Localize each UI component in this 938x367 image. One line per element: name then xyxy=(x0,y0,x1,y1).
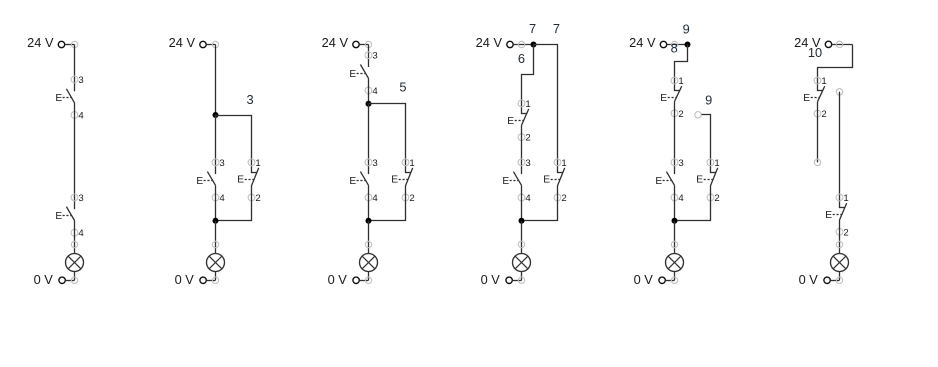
svg-text:E: E xyxy=(349,176,356,187)
0 V lead wire (circuit 1) xyxy=(65,280,74,282)
0 V terminal (circuit 4) xyxy=(506,277,512,283)
net 24 V label (circuit 1) xyxy=(27,35,54,50)
24 V lead wire (circuit 1) xyxy=(65,44,75,46)
net 0 V label (circuit 6) xyxy=(799,272,819,287)
right branch wire top (circuit 3) xyxy=(369,104,406,173)
pushbutton NO contact S1 3-4 (circuit 1) xyxy=(55,89,74,104)
pin 2 of right contact S13 (circuit 5) xyxy=(707,193,720,204)
net label 9 right branch (circuit 5) xyxy=(705,92,712,107)
lamp top node (circuit 3) xyxy=(365,241,371,247)
lamp P2 (circuit 2) xyxy=(207,254,225,272)
pin 3 of contact S5 (circuit 3) xyxy=(365,51,378,62)
pin 3 of contact S12 (circuit 5) xyxy=(671,158,684,169)
svg-text:E: E xyxy=(349,69,356,80)
net label 9 top (circuit 5) xyxy=(683,21,690,36)
wire S9 to bottom junction (circuit 4) xyxy=(521,185,523,221)
pin 3 of contact S9 (circuit 4) xyxy=(518,158,531,169)
wire to lamp (circuit 2) xyxy=(215,221,217,254)
wire junction to left contact (circuit 2) xyxy=(215,115,217,174)
24 V lead wire (circuit 2) xyxy=(206,44,215,46)
net 0 V label (circuit 3) xyxy=(328,272,348,287)
net 0 V label (circuit 4) xyxy=(481,272,501,287)
24 V lead wire (circuit 5) xyxy=(667,44,688,46)
svg-text:2: 2 xyxy=(678,109,683,120)
lamp bottom stub (circuit 5) xyxy=(674,271,676,280)
svg-text:E: E xyxy=(237,175,244,186)
svg-text:5: 5 xyxy=(399,79,406,94)
lamp P6 (circuit 6) xyxy=(831,254,849,272)
supply node (circuit 4) xyxy=(518,41,524,47)
pin 4 of contact S2 (circuit 1) xyxy=(71,228,84,239)
24 V terminal (circuit 6) xyxy=(825,41,831,47)
svg-text:1: 1 xyxy=(525,99,530,110)
pin 1 of right contact S10 (circuit 4) xyxy=(554,158,567,169)
svg-text:4: 4 xyxy=(78,228,84,239)
pushbutton NC contact S8 1-2 (circuit 4) xyxy=(507,109,528,127)
pin 3 of left contact S3 (circuit 2) xyxy=(212,158,225,169)
supply node (circuit 6) xyxy=(836,41,842,47)
pin 2 of contact S14 (circuit 6) xyxy=(814,109,827,120)
svg-text:1: 1 xyxy=(843,193,848,204)
svg-text:24 V: 24 V xyxy=(476,35,503,50)
lamp bottom stub (circuit 1) xyxy=(74,271,76,280)
wire S5 to branch junction (circuit 3) xyxy=(368,78,370,103)
svg-text:24 V: 24 V xyxy=(27,35,54,50)
svg-text:2: 2 xyxy=(409,193,414,204)
pin 4 of contact S5 (circuit 3) xyxy=(365,86,378,97)
pushbutton NO contact S9 3-4 (circuit 4) xyxy=(502,172,521,187)
lamp bottom node (circuit 6) xyxy=(836,277,842,283)
svg-text:E: E xyxy=(543,175,550,186)
pin 2 of right contact S4 (circuit 2) xyxy=(248,193,261,204)
24 V terminal (circuit 4) xyxy=(507,41,513,47)
svg-text:3: 3 xyxy=(372,51,377,62)
svg-text:2: 2 xyxy=(714,193,719,204)
svg-text:E: E xyxy=(196,176,203,187)
lamp bottom stub (circuit 4) xyxy=(521,271,523,280)
wire to lamp (circuit 1) xyxy=(74,221,76,254)
24 V terminal (circuit 2) xyxy=(200,41,206,47)
right branch wire top (circuit 2) xyxy=(216,116,252,173)
svg-text:0 V: 0 V xyxy=(799,272,819,287)
wire left contact to bottom junction (circuit 2) xyxy=(215,185,217,221)
svg-text:0 V: 0 V xyxy=(634,272,654,287)
wire S12 to bottom junction (circuit 5) xyxy=(674,185,676,221)
pin 1 of right contact S7 (circuit 3) xyxy=(402,158,415,169)
wire S8 to S9 (circuit 4) xyxy=(521,125,523,174)
net 24 V label (circuit 5) xyxy=(629,35,656,50)
svg-text:2: 2 xyxy=(561,193,566,204)
wire from supply to contact S1 (circuit 1) xyxy=(74,45,76,92)
wire S14 to open end (circuit 6) xyxy=(817,102,819,163)
right branch wire bottom (circuit 3) xyxy=(369,186,406,221)
junction bottom (circuit 4) xyxy=(519,218,525,224)
wire S11 to S12 (circuit 5) xyxy=(674,102,676,175)
svg-text:1: 1 xyxy=(678,76,683,87)
junction top (circuit 2) xyxy=(213,112,219,118)
svg-text:24 V: 24 V xyxy=(169,35,196,50)
svg-text:3: 3 xyxy=(78,75,83,86)
svg-text:E: E xyxy=(55,211,62,222)
lamp bottom stub (circuit 6) xyxy=(839,271,841,280)
net label 7 left (circuit 4) xyxy=(529,21,536,36)
wire to lamp (circuit 5) xyxy=(674,221,676,254)
lamp bottom stub (circuit 3) xyxy=(368,271,370,280)
svg-text:3: 3 xyxy=(246,92,253,107)
lamp bottom node (circuit 4) xyxy=(518,277,524,283)
svg-text:1: 1 xyxy=(714,158,719,169)
svg-text:E: E xyxy=(825,210,832,221)
pin 1 of contact S8 (circuit 4) xyxy=(518,99,531,110)
left branch jog wire (circuit 4) xyxy=(522,45,534,114)
svg-text:E: E xyxy=(696,175,703,186)
svg-text:1: 1 xyxy=(821,76,826,87)
lamp bottom stub (circuit 2) xyxy=(215,271,217,280)
svg-text:2: 2 xyxy=(821,109,826,120)
svg-text:4: 4 xyxy=(372,86,378,97)
junction bottom (circuit 3) xyxy=(366,218,372,224)
0 V lead wire (circuit 6) xyxy=(830,280,839,282)
pin 2 of right contact S7 (circuit 3) xyxy=(402,193,415,204)
net label 3 (circuit 2) xyxy=(246,92,253,107)
pin 2 of contact S11 (circuit 5) xyxy=(671,109,684,120)
net label 6 (circuit 4) xyxy=(518,51,525,66)
0 V terminal (circuit 3) xyxy=(353,277,359,283)
pin 4 of contact S9 (circuit 4) xyxy=(518,193,531,204)
svg-text:E: E xyxy=(660,93,667,104)
supply node (circuit 2) xyxy=(212,41,218,47)
right branch wire bottom (circuit 4) xyxy=(522,186,558,221)
lamp top node (circuit 6) xyxy=(836,241,842,247)
svg-text:3: 3 xyxy=(372,158,377,169)
wire to lamp (circuit 6) xyxy=(839,220,841,254)
lamp bottom node (circuit 3) xyxy=(365,277,371,283)
svg-text:9: 9 xyxy=(705,92,712,107)
svg-text:6: 6 xyxy=(518,51,525,66)
pin 1 of contact S15 (circuit 6) xyxy=(836,193,849,204)
svg-text:E: E xyxy=(391,175,398,186)
svg-text:7: 7 xyxy=(529,21,536,36)
svg-text:3: 3 xyxy=(678,158,683,169)
wire S1 to S2 (circuit 1) xyxy=(74,103,76,209)
junction bottom (circuit 5) xyxy=(672,218,678,224)
lamp bottom node (circuit 2) xyxy=(212,277,218,283)
pin 3 of contact S1 (circuit 1) xyxy=(71,75,84,86)
left branch jog wire (circuit 5) xyxy=(675,45,688,91)
wire to lamp (circuit 4) xyxy=(521,221,523,254)
supply node (circuit 1) xyxy=(71,41,77,47)
pin 1 of contact S11 (circuit 5) xyxy=(671,76,684,87)
svg-text:4: 4 xyxy=(219,193,225,204)
0 V terminal (circuit 6) xyxy=(824,277,830,283)
pushbutton NC contact S7 1-2 (circuit 3) xyxy=(391,168,412,186)
24 V terminal (circuit 1) xyxy=(58,41,64,47)
junction top rail (circuit 5) xyxy=(685,42,691,48)
svg-text:E: E xyxy=(655,176,662,187)
0 V lead wire (circuit 4) xyxy=(512,280,521,282)
right branch wire bottom (circuit 5) xyxy=(675,186,711,221)
junction bottom (circuit 2) xyxy=(213,218,219,224)
svg-text:1: 1 xyxy=(561,158,566,169)
svg-text:3: 3 xyxy=(78,193,83,204)
24 V terminal (circuit 3) xyxy=(353,41,359,47)
pin 4 of contact S1 (circuit 1) xyxy=(71,111,84,122)
right branch open terminal (circuit 6) xyxy=(836,89,842,95)
lamp P5 (circuit 5) xyxy=(666,254,684,272)
lamp top node (circuit 5) xyxy=(671,241,677,247)
pin 1 of right contact S4 (circuit 2) xyxy=(248,158,261,169)
0 V lead wire (circuit 5) xyxy=(665,280,674,282)
right branch open terminal net 9 (circuit 5) xyxy=(695,112,701,118)
svg-text:E: E xyxy=(803,93,810,104)
lamp top node (circuit 4) xyxy=(518,241,524,247)
right branch wire top (circuit 4) xyxy=(534,45,558,173)
pushbutton NC contact S14 1-2 (circuit 6) xyxy=(803,86,824,104)
pushbutton NC contact S13 1-2 (circuit 5) xyxy=(696,168,717,186)
lamp top node (circuit 1) xyxy=(71,241,77,247)
supply node (circuit 5) xyxy=(671,41,677,47)
pin 2 of contact S8 (circuit 4) xyxy=(518,133,531,144)
24 V terminal (circuit 5) xyxy=(660,41,666,47)
pin 3 of left contact S6 (circuit 3) xyxy=(365,158,378,169)
0 V terminal (circuit 2) xyxy=(200,277,206,283)
lamp P3 (circuit 3) xyxy=(360,254,378,272)
wire supply to branch junction (circuit 2) xyxy=(215,45,217,116)
svg-text:2: 2 xyxy=(525,133,530,144)
junction top (circuit 3) xyxy=(366,101,372,107)
svg-text:8: 8 xyxy=(671,40,678,55)
left branch jog wire (circuit 6) xyxy=(818,45,853,91)
net 24 V label (circuit 2) xyxy=(169,35,196,50)
24 V lead wire (circuit 3) xyxy=(359,44,368,46)
lamp P4 (circuit 4) xyxy=(513,254,531,272)
svg-text:10: 10 xyxy=(808,45,822,60)
svg-text:0 V: 0 V xyxy=(481,272,501,287)
pushbutton NO contact S5 3-4 (circuit 3) xyxy=(349,65,368,80)
net label 10 (circuit 6) xyxy=(808,45,822,60)
pin 1 of contact S14 (circuit 6) xyxy=(814,76,827,87)
net 0 V label (circuit 1) xyxy=(34,272,54,287)
supply node (circuit 3) xyxy=(365,41,371,47)
pushbutton NO contact S2 3-4 (circuit 1) xyxy=(55,207,74,222)
24 V lead wire (circuit 4) xyxy=(513,44,533,46)
svg-text:24 V: 24 V xyxy=(322,35,349,50)
pushbutton NC contact S11 1-2 (circuit 5) xyxy=(660,86,681,104)
net 24 V label (circuit 6) xyxy=(794,35,821,50)
svg-text:0 V: 0 V xyxy=(34,272,54,287)
24 V lead wire (circuit 6) xyxy=(832,44,853,46)
pushbutton NC contact S15 1-2 (circuit 6) xyxy=(825,203,846,221)
svg-text:9: 9 xyxy=(683,21,690,36)
lamp bottom node (circuit 1) xyxy=(71,277,77,283)
pushbutton NO contact S3 3-4 (circuit 2) xyxy=(196,172,215,187)
svg-text:4: 4 xyxy=(78,111,84,122)
svg-text:1: 1 xyxy=(409,158,414,169)
svg-text:3: 3 xyxy=(525,158,530,169)
svg-text:2: 2 xyxy=(843,227,848,238)
pushbutton NC contact S4 1-2 (circuit 2) xyxy=(237,168,258,186)
svg-text:0 V: 0 V xyxy=(175,272,195,287)
0 V lead wire (circuit 2) xyxy=(206,280,215,282)
svg-text:0 V: 0 V xyxy=(328,272,348,287)
svg-text:E: E xyxy=(507,116,514,127)
svg-text:2: 2 xyxy=(255,193,260,204)
pushbutton NO contact S6 3-4 (circuit 3) xyxy=(349,172,368,187)
0 V terminal (circuit 1) xyxy=(59,277,65,283)
svg-text:3: 3 xyxy=(219,158,224,169)
pin 4 of left contact S3 (circuit 2) xyxy=(212,193,225,204)
wire to lamp (circuit 3) xyxy=(368,221,370,254)
lamp P1 (circuit 1) xyxy=(66,254,84,272)
svg-text:E: E xyxy=(55,93,62,104)
junction top rail (circuit 4) xyxy=(531,42,537,48)
svg-text:4: 4 xyxy=(525,193,531,204)
svg-text:E: E xyxy=(502,176,509,187)
0 V lead wire (circuit 3) xyxy=(359,280,368,282)
wire left contact to bottom junction (circuit 3) xyxy=(368,185,370,221)
0 V terminal (circuit 5) xyxy=(659,277,665,283)
svg-text:24 V: 24 V xyxy=(629,35,656,50)
pin 1 of right contact S13 (circuit 5) xyxy=(707,158,720,169)
lamp top node (circuit 2) xyxy=(212,241,218,247)
net 0 V label (circuit 5) xyxy=(634,272,654,287)
pin 2 of right contact S10 (circuit 4) xyxy=(554,193,567,204)
right branch wire bottom (circuit 2) xyxy=(216,186,252,221)
pin 2 of contact S15 (circuit 6) xyxy=(836,227,849,238)
pushbutton NO contact S12 3-4 (circuit 5) xyxy=(655,172,674,187)
net 24 V label (circuit 4) xyxy=(476,35,503,50)
open end node (circuit 6) xyxy=(814,159,820,165)
lamp bottom node (circuit 5) xyxy=(671,277,677,283)
right branch wire (circuit 6) xyxy=(839,92,841,208)
svg-text:4: 4 xyxy=(372,193,378,204)
pushbutton NC contact S10 1-2 (circuit 4) xyxy=(543,168,564,186)
wire supply to contact S5 (circuit 3) xyxy=(368,45,370,68)
net label 8 (circuit 5) xyxy=(671,40,678,55)
pin 3 of contact S2 (circuit 1) xyxy=(71,193,84,204)
right branch wire top (circuit 5) xyxy=(702,115,711,173)
net 0 V label (circuit 2) xyxy=(175,272,195,287)
svg-text:4: 4 xyxy=(678,193,684,204)
net 24 V label (circuit 3) xyxy=(322,35,349,50)
wire junction to left contact (circuit 3) xyxy=(368,104,370,174)
pin 4 of contact S12 (circuit 5) xyxy=(671,193,684,204)
net label 7 right (circuit 4) xyxy=(553,21,560,36)
net label 5 (circuit 3) xyxy=(399,79,406,94)
svg-text:7: 7 xyxy=(553,21,560,36)
pin 4 of left contact S6 (circuit 3) xyxy=(365,193,378,204)
svg-text:1: 1 xyxy=(255,158,260,169)
